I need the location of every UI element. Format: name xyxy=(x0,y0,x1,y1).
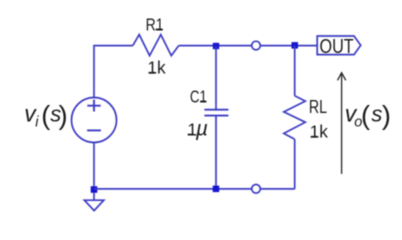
wire top rail right segment xyxy=(179,45,318,47)
wire ground stub xyxy=(93,193,95,200)
label vi(s) xyxy=(24,100,67,130)
svg-text:(: ( xyxy=(361,100,370,130)
wire C1 top xyxy=(215,46,217,109)
wire top-left vertical from source to top rail xyxy=(93,46,95,98)
wire top rail left segment xyxy=(93,45,133,47)
svg-text:): ) xyxy=(59,100,68,130)
wire source bottom xyxy=(93,143,95,187)
svg-text:µ: µ xyxy=(195,118,208,141)
wire RL bottom xyxy=(294,139,296,189)
label vo(s) xyxy=(345,100,391,130)
svg-text:(: ( xyxy=(41,100,50,130)
plus sign of source xyxy=(87,100,100,112)
capacitor C1 bottom plate xyxy=(204,115,228,117)
junction node at R1/C1 xyxy=(213,43,219,49)
svg-text:i: i xyxy=(35,114,39,130)
minus sign of source xyxy=(87,129,101,131)
svg-text:C1: C1 xyxy=(190,88,207,107)
wire bottom rail xyxy=(94,188,295,190)
capacitor C1 top plate xyxy=(204,109,228,111)
resistor RL xyxy=(284,96,306,140)
svg-text:s: s xyxy=(371,101,382,126)
port circle top xyxy=(252,41,261,50)
svg-text:OUT: OUT xyxy=(320,35,354,57)
ground symbol xyxy=(84,200,103,210)
voltage source V1 circle xyxy=(72,98,117,143)
port circle bottom xyxy=(252,185,261,194)
junction node at C1 bottom xyxy=(213,186,220,193)
junction node at RL/OUT xyxy=(292,42,299,49)
svg-text:1k: 1k xyxy=(147,58,166,78)
net flag OUT pentagon xyxy=(317,36,361,55)
junction node at ground xyxy=(91,186,98,193)
arrow vo head xyxy=(338,73,346,81)
svg-text:1k: 1k xyxy=(310,122,329,142)
svg-text:): ) xyxy=(382,100,391,130)
arrow vo line xyxy=(341,74,343,174)
wire RL top xyxy=(294,45,296,96)
svg-text:R1: R1 xyxy=(146,16,164,35)
wire C1 bottom xyxy=(215,116,217,189)
resistor R1 xyxy=(133,35,179,56)
svg-text:RL: RL xyxy=(309,97,327,117)
